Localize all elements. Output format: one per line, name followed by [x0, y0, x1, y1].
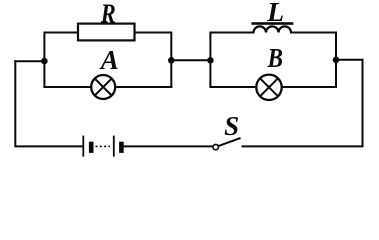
node junction dot mid-left	[168, 57, 175, 64]
wire: left block top loop	[44, 33, 78, 88]
wire: middle link between blocks	[171, 59, 210, 61]
node junction dot right	[333, 57, 340, 64]
inductor L1 coil	[254, 26, 292, 32]
wire: lamp B branch right	[281, 86, 336, 88]
node junction dot left	[41, 58, 48, 65]
wire: battery to switch	[124, 145, 213, 147]
battery cell 1 long plate	[82, 136, 84, 157]
lamp A cross	[95, 79, 112, 96]
battery dashed continuation	[96, 145, 111, 147]
battery cell 2 short thick plate	[119, 142, 124, 153]
wire: left stub to outer wire	[15, 60, 44, 62]
wire: outer right vertical and bottom right rail	[243, 60, 363, 147]
battery cell 2 long plate	[113, 136, 115, 157]
switch S lever	[219, 138, 241, 146]
switch S pivot circle	[213, 144, 218, 149]
svg-text:R: R	[100, 0, 116, 28]
wire: lamp A branch right	[116, 86, 172, 88]
wire: lamp A branch left	[44, 86, 91, 88]
wire: right block left side up and top to coil	[210, 33, 253, 88]
svg-text:A: A	[99, 45, 119, 75]
wire: right stub to outer wire	[336, 59, 363, 61]
lamp A body	[91, 75, 115, 99]
svg-text:L: L	[266, 0, 284, 27]
lamp B body	[256, 75, 281, 100]
wire: lamp B branch left	[210, 86, 257, 88]
svg-text:S: S	[224, 111, 239, 141]
battery cell 1 short thick plate	[89, 142, 94, 153]
wire: outer left vertical and bottom left rail	[15, 61, 81, 146]
wire: coil right to corner down	[291, 33, 336, 88]
node junction dot mid-right	[207, 57, 214, 64]
lamp B cross	[260, 78, 278, 96]
wire: resistor right to corner down	[135, 33, 172, 88]
resistor R1 body	[78, 24, 135, 41]
inductor L1 core bar	[251, 22, 293, 25]
svg-text:B: B	[267, 43, 283, 73]
